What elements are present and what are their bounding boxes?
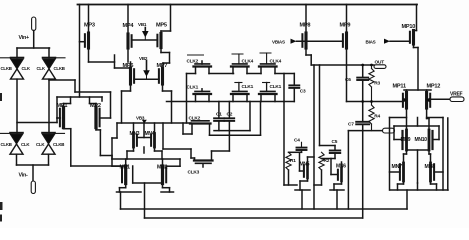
transistor MN3 <box>130 131 140 147</box>
label CLK4 switch S3 <box>260 53 282 64</box>
svg-text:CLKB: CLKB <box>1 66 12 71</box>
svg-text:MP2: MP2 <box>90 103 101 109</box>
node OUT pin <box>374 60 386 69</box>
wire TG1 to MP1 gate <box>17 118 60 123</box>
label BIAS arrow <box>366 39 391 45</box>
label CLK2 switch S1 <box>187 55 204 64</box>
wire MN2 drain <box>162 159 164 166</box>
wire MN8 source <box>431 181 437 190</box>
wire tail vertical (rail to MP1/MP2 sources) <box>79 5 81 98</box>
wire S4 terminals <box>196 94 210 102</box>
capacitor C4 <box>294 137 307 150</box>
svg-text:MP3: MP3 <box>84 23 95 29</box>
transistor MP7 <box>157 63 168 84</box>
wire R1 bottom <box>284 170 297 185</box>
node comp pin <box>383 128 395 133</box>
svg-text:R3: R3 <box>374 80 380 86</box>
wire MP12 source <box>426 90 428 93</box>
svg-text:CLKB: CLKB <box>1 142 12 147</box>
svg-text:MP12: MP12 <box>427 84 441 90</box>
node VREF pin <box>450 92 464 102</box>
transmission gate TG2 (CLKB) <box>43 58 56 80</box>
transistor MN8 <box>425 163 436 181</box>
svg-text:R1: R1 <box>290 158 296 164</box>
wire MN5 source <box>295 178 310 209</box>
label CLK1 switch S5 <box>235 83 254 92</box>
wire MN6 source <box>330 181 344 209</box>
wire S2 terminals <box>233 67 261 74</box>
transistor MP1 <box>57 103 68 128</box>
svg-text:C7: C7 <box>348 121 354 127</box>
wire C7 bottom long drop <box>362 124 364 218</box>
scan specks <box>0 93 3 222</box>
wire MP1 drain to MN1 gate <box>64 128 128 167</box>
wire long drop to C4 cell <box>283 74 285 186</box>
transistor MP2 <box>90 103 101 128</box>
svg-text:MN4: MN4 <box>145 131 155 137</box>
wire output node line <box>311 64 374 66</box>
wire MP6 drain to MN3 gate line <box>122 84 131 123</box>
wire S3 terminals <box>261 67 294 74</box>
svg-text:CLK: CLK <box>37 66 46 71</box>
wire MN4 drain <box>154 123 156 134</box>
wire MN5 drain <box>308 157 315 164</box>
capacitor C1 <box>214 102 224 121</box>
svg-text:BIAS: BIAS <box>366 40 376 45</box>
wire MP6 source <box>115 62 131 68</box>
wire MN3 drain <box>133 123 135 134</box>
transistor MP8 <box>300 23 311 49</box>
switch transistor S4 <box>194 89 212 94</box>
wire C4/R1 node <box>289 150 302 171</box>
svg-text:MP10: MP10 <box>402 24 416 30</box>
svg-text:MP1: MP1 <box>57 103 68 109</box>
wire MP5 drain <box>161 48 170 69</box>
wire MN1 gate lead <box>112 165 122 167</box>
wire R2 bottom <box>314 170 322 185</box>
label VBIAS arrow <box>272 39 297 45</box>
transistor MN4 <box>145 131 155 147</box>
wire MP12 gate to VREF <box>430 98 450 100</box>
label CLK4 switch S2 <box>232 54 254 64</box>
transistor MP4 <box>123 23 135 48</box>
label TG3 clocks <box>1 133 31 147</box>
transistor MN5 <box>300 161 310 178</box>
wire TG3/TG4 join <box>17 154 49 181</box>
transistor MP5 <box>156 23 167 48</box>
transistor MP11 <box>393 84 408 109</box>
svg-text:MP7: MP7 <box>157 63 168 69</box>
wire MN8 gate lead <box>434 171 443 173</box>
wire C3 bottom tap <box>284 88 294 102</box>
wire second vertical to C5 <box>320 65 336 146</box>
svg-text:VB3: VB3 <box>136 116 145 121</box>
label CLK1 switch S6 <box>263 83 282 92</box>
node Vin+ input pin <box>19 17 36 41</box>
svg-text:MN1: MN1 <box>120 165 131 171</box>
capacitor C6 <box>345 65 368 102</box>
svg-text:MP11: MP11 <box>393 84 406 90</box>
wire S7 right lead <box>210 102 261 136</box>
wire S7 left lead <box>183 123 192 134</box>
capacitor C3 <box>289 74 306 95</box>
wire MN3/MN4 gate line <box>117 122 191 124</box>
wire MP10 drain <box>414 44 419 90</box>
transistor MN7 <box>392 163 404 181</box>
switch transistor S3 <box>259 64 277 67</box>
wire MP8 drain <box>306 48 311 65</box>
wire S8 right lead <box>212 151 230 161</box>
svg-text:CLK1: CLK1 <box>270 84 282 90</box>
wire cascode node line <box>112 158 180 160</box>
svg-text:MN10: MN10 <box>415 137 428 143</box>
wire S5 terminals <box>233 94 247 102</box>
transistor MN2 <box>157 165 168 184</box>
transistor MP3 <box>84 23 95 49</box>
svg-text:VBIAS: VBIAS <box>272 40 285 45</box>
switch transistor S6 <box>259 91 277 94</box>
wire MP4-MP5 gate line <box>132 39 158 41</box>
wire bottom ground line <box>121 190 408 209</box>
svg-text:CLK: CLK <box>36 142 45 147</box>
transmission gate TG3 (CLKB) <box>10 133 23 155</box>
wire Vin+ to chopper gates <box>17 48 50 58</box>
svg-text:Vin+: Vin+ <box>19 35 30 41</box>
wire mid node line <box>347 101 403 103</box>
wire MN6 drain <box>341 162 343 169</box>
wire MP3 gate lead <box>80 41 85 43</box>
svg-text:CLK: CLK <box>22 66 31 71</box>
wire long vertical from OUT to ground line <box>313 65 315 209</box>
label VB1 bias arrow <box>138 22 149 39</box>
wire S6 terminals <box>261 94 275 102</box>
wire MN6 gate lead <box>331 174 338 176</box>
wire MN1 source <box>117 184 142 193</box>
switch transistor S7 <box>190 121 211 124</box>
transistor MP12 <box>426 84 440 109</box>
label VB2 bias arrow <box>139 56 150 78</box>
wire C2 bottom <box>228 121 230 151</box>
wire feedback line to MN9 cell <box>348 131 389 209</box>
wire MN5 gate lead <box>300 170 304 172</box>
wire MP11 drain <box>406 108 408 130</box>
capacitor C5 <box>330 139 341 153</box>
svg-text:C3: C3 <box>300 88 306 94</box>
wire MN3 gate hook to MN1 gate <box>112 123 117 166</box>
svg-text:C4: C4 <box>294 137 300 143</box>
svg-text:CLK: CLK <box>21 142 30 147</box>
svg-text:C5: C5 <box>332 139 338 145</box>
wire output stage ground rail <box>390 118 448 190</box>
svg-text:CLKB: CLKB <box>54 66 65 71</box>
wire S1 terminals <box>187 67 234 74</box>
wire C1 bottom <box>214 102 250 131</box>
transistor MN6 <box>336 164 346 182</box>
svg-text:CLK1: CLK1 <box>242 84 254 90</box>
wire TG2 output down <box>48 79 50 133</box>
switch transistor S1 <box>194 61 212 67</box>
wire MN7 gate lead <box>390 171 400 173</box>
svg-text:CLKB: CLKB <box>53 142 64 147</box>
transistor MP6 <box>123 63 135 84</box>
svg-text:Vin-: Vin- <box>19 173 29 179</box>
label CLK3 switch S8 <box>188 170 200 176</box>
wire MN2 source <box>161 184 174 193</box>
wire MP10 source <box>414 5 417 31</box>
wire MP8 source <box>305 5 307 34</box>
wire S8 left lead <box>191 149 195 161</box>
junction dots <box>361 64 373 103</box>
wire TG2 to MP2 gate <box>49 80 111 118</box>
resistor R3 <box>369 65 381 102</box>
wire Vin+ stub <box>33 31 35 49</box>
svg-text:CLK1: CLK1 <box>187 85 199 91</box>
wire MP11 source <box>406 90 408 93</box>
label TG4 clocks <box>36 133 65 147</box>
capacitor C7 <box>348 102 369 128</box>
wire row2 bus <box>167 101 285 103</box>
svg-text:VB1: VB1 <box>138 22 147 27</box>
svg-text:MN3: MN3 <box>130 131 140 137</box>
svg-text:MN7: MN7 <box>392 164 403 170</box>
svg-text:MN9: MN9 <box>401 137 411 143</box>
resistor R4 <box>369 102 381 131</box>
wire MN3/MN4 gate taps <box>137 123 151 138</box>
wire bottom feedback line <box>145 217 363 219</box>
wire MP2 drain to cascode node <box>96 128 112 160</box>
wire MN3/MN4 center stub <box>143 147 145 153</box>
svg-text:MP8: MP8 <box>300 23 311 29</box>
wire MP3 source <box>88 5 90 34</box>
capacitor C2 <box>225 102 235 121</box>
transistor MP10 <box>402 24 416 44</box>
svg-text:MP5: MP5 <box>156 23 167 29</box>
wire MN1 drain <box>125 159 127 166</box>
label CLK2 switch S7 <box>189 115 201 121</box>
transistor MP9 <box>340 23 351 49</box>
transistor MN1 <box>120 165 131 184</box>
svg-text:MN8: MN8 <box>425 164 436 170</box>
wire MP1/MP2 source box <box>57 97 102 118</box>
resistor R2 <box>319 152 330 170</box>
label CLK1 switch S4 <box>187 85 199 91</box>
wire MP4 drain <box>127 48 129 62</box>
wire MP4 source <box>127 5 129 35</box>
wire MP6-MP7 gate line <box>134 78 159 80</box>
wire MN1/MN2 tail <box>133 166 162 218</box>
wire MP9 source <box>346 5 348 34</box>
wire MN4 source <box>155 147 163 159</box>
switch transistor S5 <box>231 91 249 94</box>
svg-text:CLK3: CLK3 <box>188 170 200 176</box>
transistor MN10 <box>415 130 433 150</box>
wire MP7 drain to switch bus <box>163 84 172 123</box>
switch transistor S2 <box>231 64 249 67</box>
transmission gate TG1 (CLK) <box>11 58 24 80</box>
switch transistor S8 <box>194 161 213 168</box>
wire MN7 source <box>398 181 404 190</box>
wire MN3 source <box>127 147 134 159</box>
power rail VDD <box>78 4 418 6</box>
wire MP10 gate lead <box>390 40 410 42</box>
wire MN2 gate lead <box>166 159 180 166</box>
svg-text:C6: C6 <box>345 77 351 83</box>
wire MP12 drain <box>427 108 429 130</box>
wire MP3 drain <box>89 48 115 68</box>
transmission gate TG4 (CLK) <box>42 133 55 155</box>
label TG2 clocks <box>37 58 66 71</box>
node Vin- input pin <box>19 173 36 194</box>
label TG1 clocks <box>1 58 31 71</box>
svg-text:MP9: MP9 <box>340 23 351 29</box>
wire S1 left drop <box>186 74 188 124</box>
svg-text:R4: R4 <box>374 114 380 120</box>
wire MP11/MP12 source line <box>404 89 431 91</box>
wire MP9 drain <box>346 48 348 102</box>
wire MP5 source <box>161 5 171 34</box>
wire MP8/MP9 gate line <box>297 40 343 42</box>
label VB3 bias arrow <box>136 116 147 124</box>
wire MN9/MN10 cell frame <box>390 118 444 191</box>
wire C5/R2 node <box>322 153 336 175</box>
wire TG1 output down <box>16 79 18 133</box>
resistor R1 <box>286 152 296 170</box>
transistor MN9 <box>401 130 411 150</box>
wire MN9/MN10 bottoms <box>404 150 431 183</box>
wire MN4 to CLK3 switch <box>163 123 191 149</box>
